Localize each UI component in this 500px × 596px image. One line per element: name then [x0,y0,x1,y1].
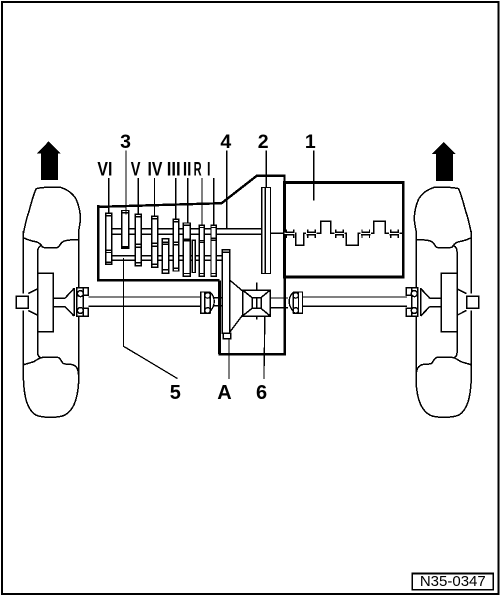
left drive axle shaft [88,297,201,306]
svg-text:III: III [167,160,181,181]
gear IV pair [152,216,158,267]
left tire sidewalls [23,231,78,377]
output shaft [112,256,223,260]
right drive axle shaft [302,297,407,306]
right wheel hub plate [454,246,457,273]
svg-text:II: II [183,160,192,181]
svg-text:3: 3 [120,131,131,153]
left wheel assembly [16,187,88,417]
gearbox housing outline [97,205,99,281]
small idler gear [192,240,195,272]
svg-text:N35-0347: N35-0347 [420,573,486,590]
gear V pair [135,214,141,265]
svg-text:4: 4 [220,131,231,153]
left hub-to-CV shaft and cone [53,289,74,316]
differential [243,283,271,320]
right stub axle [467,296,479,308]
gear I pair [211,225,216,276]
svg-text:IV: IV [148,160,163,181]
svg-text:R: R [194,160,202,181]
left tire top tread blob [24,187,81,240]
crankshaft main bearings [285,230,400,239]
leader line 3 [125,151,127,215]
leader line 5 [123,258,177,379]
svg-text:6: 6 [256,382,267,404]
leader line 2 [265,151,267,188]
right tire sidewalls [416,231,471,377]
input shaft end gear (3) [122,211,129,249]
svg-text:5: 5 [170,382,181,404]
differential right output shaft [270,298,288,308]
drawing number box [412,574,493,590]
differential bevel cone [230,280,243,332]
clutch disc [262,188,271,274]
gear III pair [173,219,179,271]
svg-text:A: A [217,382,231,404]
left stub axle [16,296,28,308]
engine block [285,183,404,278]
right wheel assembly (mirror of left) [406,187,478,417]
leader line 1 [313,151,315,201]
final drive housing [218,278,286,354]
lower cluster gear [162,239,169,273]
arrow right (direction of travel) [432,142,456,181]
left inner CV joint [201,292,222,313]
right tire top tread blob [414,187,471,240]
svg-text:I: I [207,160,211,181]
right outer CV joint [418,288,421,316]
gear VI pair [106,213,112,264]
leader line 6 [264,316,265,379]
gear R pair [199,225,204,276]
svg-text:V: V [131,160,141,181]
left wheel hub plate [38,246,41,273]
leader lines gears [109,178,214,225]
input shaft [112,229,262,235]
leader line 4 [226,151,228,230]
arrow left (direction of travel) [37,141,61,180]
svg-text:1: 1 [305,131,316,153]
svg-text:VI: VI [97,160,112,181]
right tire bottom tread blob [416,357,471,377]
leader line A [228,339,230,379]
final drive ring gear [222,250,230,339]
svg-text:2: 2 [258,131,269,153]
left tire bottom tread blob [23,357,78,377]
gear II pair [183,223,190,276]
left outer CV joint [74,288,77,316]
crankshaft [271,221,402,245]
right inner CV joint [289,292,302,313]
right hub-to-CV shaft and cone [421,289,442,316]
